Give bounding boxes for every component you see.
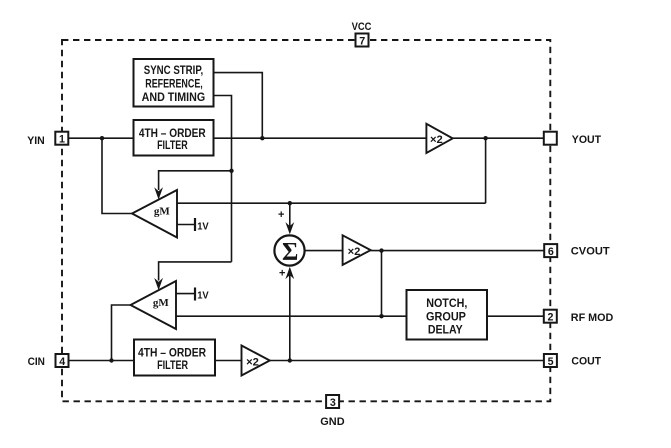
svg-text:5: 5 [548,356,554,368]
svg-text:NOTCH,: NOTCH, [426,296,467,310]
amplifier x2 (C path) [242,346,270,376]
pin 4 CIN [56,354,69,368]
wire gM2 output to CIN node [112,305,131,361]
svg-text:×2: ×2 [246,356,259,368]
svg-text:SYNC STRIP,: SYNC STRIP, [144,63,204,77]
IC boundary dashed outline [62,40,550,401]
svg-text:VCC: VCC [352,21,372,33]
pin YOUT (unnumbered) [544,132,557,145]
block: notch, group delay [407,290,488,340]
svg-text:Σ: Σ [282,239,298,266]
summing junction [274,235,304,265]
transconductance amp gM1 (Y clamp) [132,190,177,238]
svg-text:4: 4 [59,356,65,368]
wire gM1 output to YIN node [102,138,132,213]
block: Y 4th-order filter [134,120,214,156]
svg-text:YOUT: YOUT [572,134,602,146]
svg-text:RF MOD: RF MOD [571,312,614,324]
pin 1 YIN [55,132,68,146]
pin 7 VCC [356,34,369,48]
svg-text:×2: ×2 [430,134,443,146]
node on notch input line [379,314,383,318]
amplifier x2 (composite) [343,235,371,265]
svg-text:1V: 1V [197,220,209,232]
block: sync strip, reference, and timing [134,59,214,107]
svg-text:+: + [278,209,284,221]
node on CVOUT line (notch branch) [379,248,383,252]
wire sync block output 1 to Y line [214,73,263,139]
svg-text:GND: GND [320,416,344,428]
pin 5 COUT [544,354,557,368]
svg-text:1V: 1V [197,290,209,302]
node on YOUT line (feedback tap) [483,136,487,140]
wire Y feedback horizontal to gM1 input [177,202,486,204]
svg-text:gM: gM [154,205,171,217]
svg-text:6: 6 [548,246,554,258]
node on Y feedback line (summer branch) [288,201,292,205]
wire YIN to Y filter [69,137,134,139]
svg-text:+: + [279,268,285,280]
svg-text:7: 7 [359,35,365,47]
wire branch to gM1 top with arrow [159,171,232,190]
svg-text:COUT: COUT [571,355,601,367]
wire summer to x2 amp [305,250,343,252]
wire C filter to x2 amp [215,360,242,362]
amplifier x2 (Y path) [426,124,452,153]
wire CVOUT node down to notch line [381,251,383,317]
wire into summer top with arrow [289,203,291,226]
svg-text:AND TIMING: AND TIMING [142,90,206,104]
node on COUT line (summer branch) [288,358,292,362]
wire x2 amp to YOUT pin [453,137,544,139]
svg-text:YIN: YIN [27,135,45,147]
svg-text:×2: ×2 [348,246,361,258]
wire x2 amp to COUT pin [270,360,544,362]
wire gM2 1V reference [176,293,195,295]
svg-text:1: 1 [59,134,65,146]
svg-text:DELAY: DELAY [428,323,463,337]
wire branch to gM2 top with arrow [159,262,232,281]
node on Y line (sync tap) [260,136,264,140]
wire Y filter to x2 amp [214,137,427,139]
wire CIN to C filter [69,360,134,362]
svg-text:gM: gM [153,297,170,309]
wire Y output feedback vertical [485,138,487,203]
node on YIN line (gM1 clamp) [100,136,104,140]
block: C 4th-order filter [134,340,215,376]
svg-text:FILTER: FILTER [157,138,188,152]
pin 3 GND [326,395,339,409]
svg-text:GROUP: GROUP [426,309,466,323]
transconductance amp gM2 (C clamp) [131,281,177,329]
pin 2 RF MOD [544,310,557,324]
node on sync vertical (gM1 branch) [229,169,233,173]
wire C line into summer bottom with arrow [289,275,291,361]
wire gM2 input / notch input [176,315,407,317]
svg-text:3: 3 [330,397,336,409]
svg-text:FILTER: FILTER [157,358,188,372]
wire x2 amp to CVOUT pin [371,250,545,252]
svg-text:CIN: CIN [28,356,45,368]
wire gM1 1V reference [177,224,195,226]
pin 6 CVOUT [544,244,557,258]
svg-text:CVOUT: CVOUT [571,246,610,258]
wire sync block output 2 vertical [214,96,232,262]
svg-text:2: 2 [548,312,554,324]
node on CIN line (gM2 clamp) [109,358,113,362]
wire notch block to RF MOD pin [487,315,544,317]
svg-text:REFERENCE,: REFERENCE, [145,77,203,91]
